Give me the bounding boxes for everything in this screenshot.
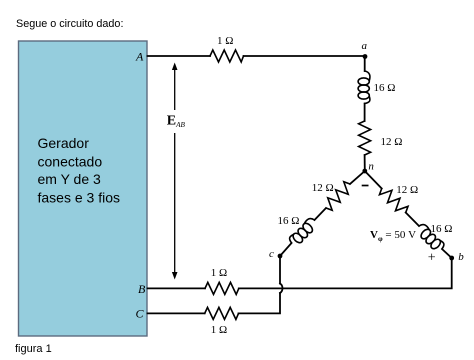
svg-text:Gerador: Gerador [38,135,90,151]
resistor 12Ω phase a [359,121,371,155]
svg-text:c: c [269,248,274,260]
wire left resistor to inductor [315,208,327,220]
wire C to riser below hop [239,293,281,313]
resistor 1Ω line B [205,282,239,294]
node b dot [449,256,454,261]
svg-text:C: C [136,307,145,321]
svg-text:fases e 3 fios: fases e 3 fios [38,190,121,206]
svg-text:Segue o circuito dado:: Segue o circuito dado: [16,18,123,30]
minus sign at n [362,185,369,187]
wire A to resistor [148,55,211,57]
svg-text:1 Ω: 1 Ω [211,324,227,336]
wire inductor to resistor [364,104,366,122]
wire B to resistor [148,287,206,289]
resistor 12Ω phase c [322,180,355,213]
wire n to left resistor [350,171,365,184]
voltage arrow E AB [172,63,178,280]
generator box [19,41,148,336]
svg-text:16 Ω: 16 Ω [278,215,300,227]
wire hop over line B [280,284,282,294]
wire resistor B to node b [239,259,452,288]
svg-text:1 Ω: 1 Ω [217,35,233,47]
wire riser to node c [279,257,281,284]
svg-text:a: a [362,40,368,52]
node n dot [362,169,367,174]
svg-text:+: + [428,251,436,266]
svg-text:conectado: conectado [38,153,103,169]
inductor 16Ω phase b [414,222,445,253]
node c dot [278,254,283,259]
wire n to right resistor [365,171,382,189]
svg-text:16 Ω: 16 Ω [374,82,396,94]
svg-text:A: A [135,50,144,64]
svg-text:figura 1: figura 1 [15,343,52,355]
svg-text:12 Ω: 12 Ω [396,184,418,196]
svg-text:12 Ω: 12 Ω [312,182,334,194]
node a dot [363,54,368,59]
wire a to inductor [364,57,366,72]
svg-text:1 Ω: 1 Ω [211,267,227,279]
svg-text:16 Ω: 16 Ω [431,223,453,235]
wire inductor to node b [442,249,452,258]
svg-text:EAB: EAB [167,114,186,130]
svg-text:b: b [458,251,464,263]
svg-text:Vφ = 50 V: Vφ = 50 V [370,229,416,243]
inductor 16Ω phase a [358,71,370,104]
svg-text:12 Ω: 12 Ω [381,136,403,148]
wire right resistor to inductor [406,213,419,227]
svg-text:n: n [368,161,374,173]
wire C to resistor [148,312,205,314]
inductor 16Ω phase c [288,216,319,247]
svg-text:B: B [138,282,146,296]
wire inductor to node c [280,243,292,256]
svg-text:em Y de 3: em Y de 3 [38,171,102,187]
wire resistor to node a [244,55,366,57]
wire resistor to node n [364,155,366,171]
resistor 1Ω line A [210,50,244,62]
resistor 12Ω phase b [377,184,410,217]
resistor 1Ω line C [205,307,239,319]
generator box text [38,135,121,206]
